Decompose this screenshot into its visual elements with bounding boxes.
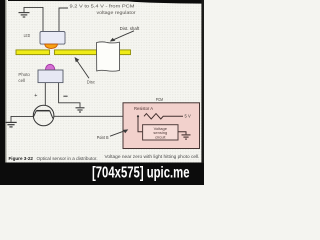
wire photocell right lead: [59, 83, 80, 108]
PCM box: [123, 103, 200, 149]
LED D1 lens dome: [45, 44, 58, 49]
svg-text:cell: cell: [18, 78, 25, 83]
label Photo cell: [18, 72, 30, 83]
svg-text:Dist. shaft: Dist. shaft: [120, 26, 140, 31]
svg-text:LED: LED: [24, 33, 31, 38]
photo cell lens dome: [45, 64, 54, 70]
wire photocell left lead: [44, 83, 46, 106]
disc (slotted), left segment: [16, 50, 50, 55]
svg-text:+: +: [34, 93, 37, 99]
scan edge top band: [8, 0, 204, 4]
scan border left: [0, 0, 5, 185]
arrow to shaft: [110, 31, 134, 42]
ground G3 (left of transistor): [5, 122, 16, 127]
svg-text:voltage regulator: voltage regulator: [97, 10, 137, 15]
svg-text:Photo: Photo: [18, 72, 30, 77]
phototransistor Q1: [33, 105, 54, 126]
wire sensing circuit to ground: [178, 132, 186, 135]
wire node Point B (collector to PCM): [54, 115, 138, 117]
wire transistor emitter to ground: [11, 116, 33, 122]
distributor shaft: [97, 42, 120, 71]
resistor A: [144, 114, 183, 119]
svg-text:Optical sensor in a distributo: Optical sensor in a distributor.: [37, 156, 98, 161]
voltage sensing circuit box: [143, 125, 178, 140]
LED D1 body: [40, 32, 65, 45]
wire junction to sensing circuit: [138, 116, 143, 132]
arrow to disc: [75, 57, 90, 78]
ground G4 (in PCM): [182, 135, 191, 139]
svg-text:Voltage near zero with light h: Voltage near zero with light hitting pho…: [105, 154, 200, 159]
wire LED supply: [59, 8, 68, 32]
ground G2 (middle): [76, 108, 85, 112]
scan border bottom: [0, 163, 204, 186]
svg-text:Point B: Point B: [97, 135, 109, 140]
svg-text:Disc: Disc: [87, 80, 96, 85]
disc (slotted), right segment: [55, 50, 131, 55]
svg-text:[704x575] upic.me: [704x575] upic.me: [92, 165, 190, 182]
svg-text:circuit: circuit: [155, 134, 166, 139]
svg-text:9.2 V to 5.4 V - from PCM: 9.2 V to 5.4 V - from PCM: [70, 4, 135, 9]
svg-text:5 V: 5 V: [185, 114, 191, 119]
svg-text:Resistor A: Resistor A: [134, 106, 153, 111]
label "9.2 V to 5.4 V - from PCM voltage regulator": [70, 4, 137, 15]
arrow Point B to junction: [110, 129, 128, 136]
polarity mark -: [63, 95, 67, 97]
photo cell body: [38, 70, 63, 83]
svg-text:Figure 3-22: Figure 3-22: [9, 156, 34, 161]
ground G1 (top left): [19, 7, 44, 31]
scan edge right bar: [201, 0, 204, 163]
node junction at resistor input: [137, 115, 139, 117]
svg-text:PCM: PCM: [156, 97, 163, 102]
